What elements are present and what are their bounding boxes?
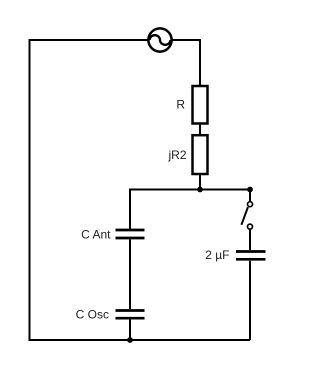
wire : node down to switch	[249, 190, 251, 202]
node junction at right branch	[247, 187, 253, 193]
capacitor C Ant	[116, 230, 145, 238]
node junction at bottom rail	[127, 337, 133, 343]
resistor jR2	[193, 135, 208, 174]
svg-text:R: R	[176, 98, 185, 112]
wire : 2uF capacitor down to bottom rail	[249, 261, 251, 340]
svg-text:2 µF: 2 µF	[205, 248, 229, 262]
svg-text:jR2: jR2	[167, 148, 186, 162]
wire : top-left + left side + bottom loop	[30, 40, 251, 340]
wire : C Ant to C Osc	[129, 239, 131, 309]
resistor R	[193, 86, 208, 124]
wire : jR2 to node, mid horizontal, down to C Ant	[130, 174, 250, 230]
AC source V1	[148, 28, 171, 51]
wire : between R and jR2	[199, 124, 201, 137]
wire : switch to 2uF capacitor	[249, 230, 251, 250]
capacitor C Osc	[116, 311, 145, 319]
wire : C Osc to bottom rail	[129, 320, 131, 340]
node junction at jR2 bottom	[197, 187, 203, 193]
svg-text:C Ant: C Ant	[81, 227, 111, 241]
svg-text:C Osc: C Osc	[76, 307, 109, 321]
wire : source to top-right corner down to R	[173, 40, 201, 86]
capacitor 2uF	[236, 252, 266, 260]
switch S1	[241, 202, 252, 229]
